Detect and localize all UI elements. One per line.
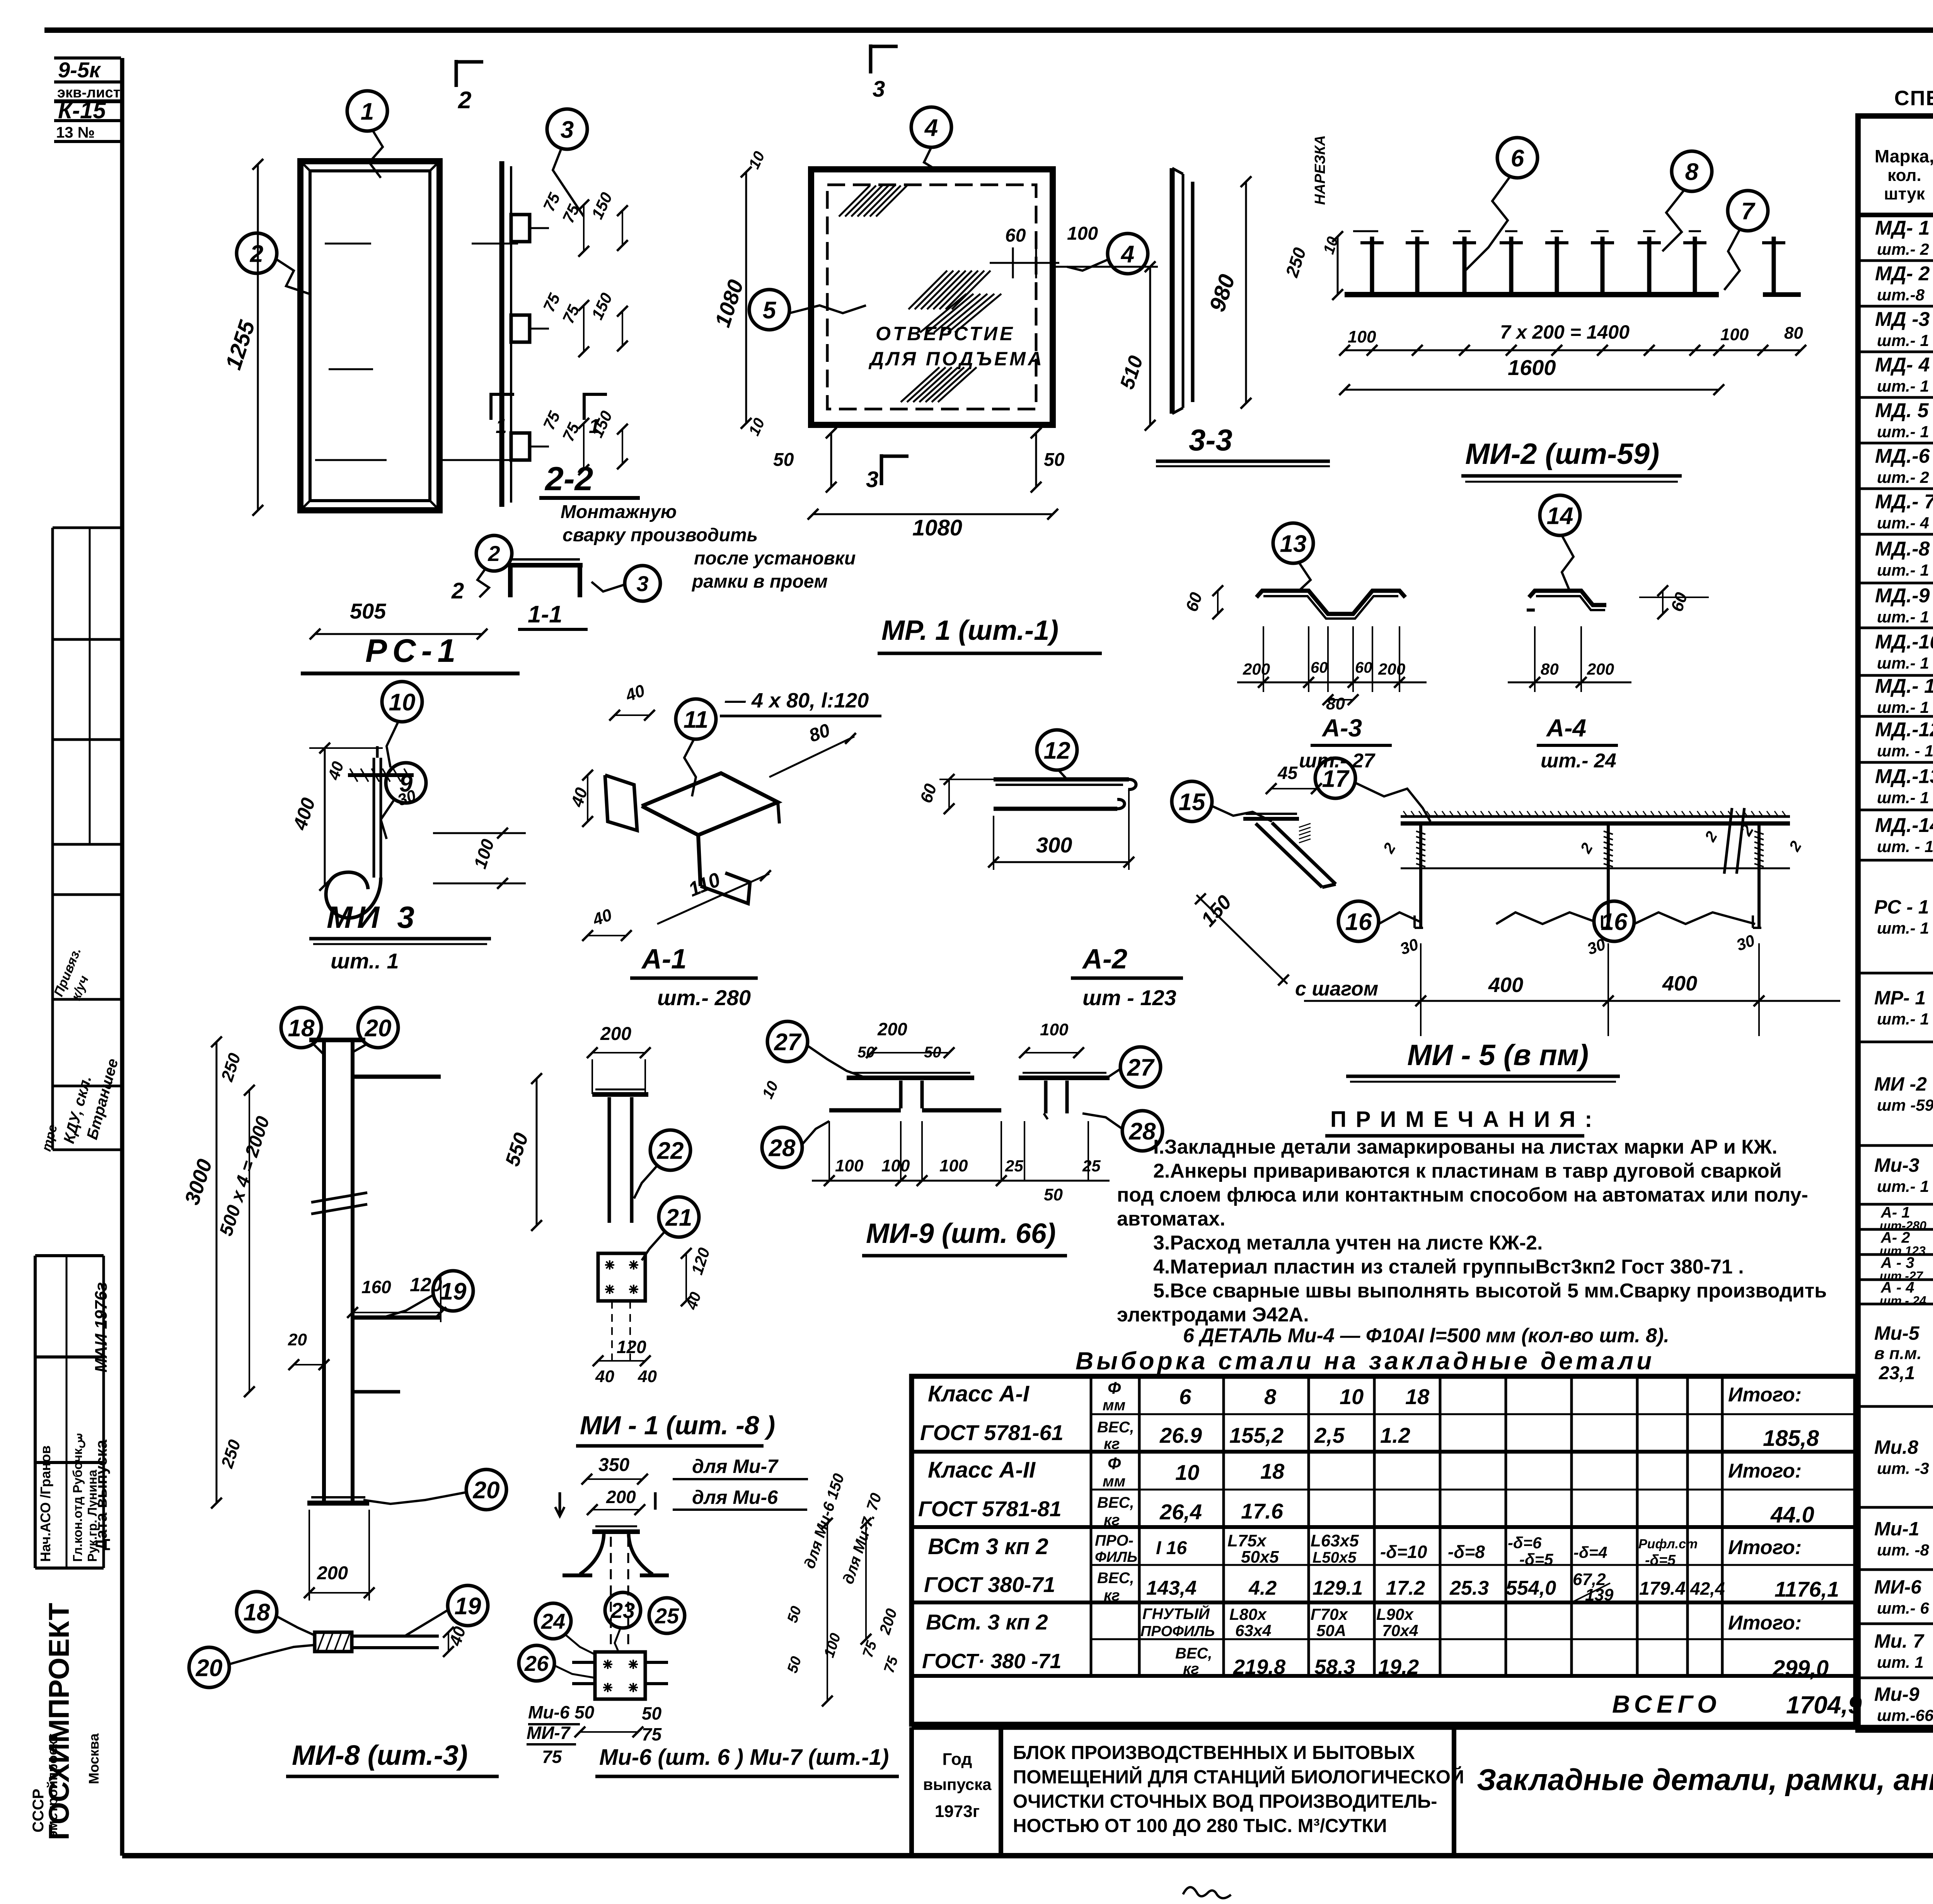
svg-text:Итого:: Итого:	[1728, 1612, 1802, 1634]
МИ-5 ref line	[1401, 868, 1790, 869]
svg-text:МД.- 11: МД.- 11	[1875, 675, 1933, 697]
svg-text:шт.- 280: шт.- 280	[657, 985, 751, 1010]
svg-text:3: 3	[561, 116, 574, 143]
detail А-3 profile	[1256, 591, 1405, 614]
svg-text:ФИЛЬ: ФИЛЬ	[1095, 1549, 1137, 1565]
spec row МД- 1	[1858, 259, 1933, 262]
svg-text:400: 400	[1488, 973, 1523, 997]
callout circle 16 left	[1338, 901, 1379, 941]
МИ-5 posts	[1419, 823, 1422, 928]
sheet bottom border	[122, 1853, 1933, 1858]
МИ-8 arms	[353, 1075, 441, 1079]
svg-text:18: 18	[1405, 1384, 1430, 1409]
А-2 dim 300	[994, 861, 1129, 863]
svg-text:50: 50	[1044, 450, 1065, 470]
detail 1-1 channel	[508, 563, 583, 568]
svg-text:ВСт. 3 кп 2: ВСт. 3 кп 2	[926, 1610, 1048, 1634]
svg-text:1: 1	[589, 415, 600, 438]
svg-text:штук: штук	[1884, 184, 1925, 203]
svg-text:12: 12	[1044, 737, 1070, 764]
svg-text:Нач.АСО /Гранов: Нач.АСО /Гранов	[38, 1445, 53, 1562]
svg-text:2: 2	[1577, 840, 1596, 856]
svg-text:шт. 1: шт. 1	[1877, 1653, 1924, 1671]
svg-text:Класс А-II: Класс А-II	[928, 1457, 1036, 1483]
detail МИ-1 tee anchor	[592, 1092, 648, 1097]
spec row МД.-14	[1858, 859, 1933, 862]
svg-text:МД.-12: МД.-12	[1875, 719, 1933, 741]
svg-text:50: 50	[642, 1703, 662, 1723]
МР-1 hatch cluster upper-left	[839, 186, 870, 216]
svg-text:Рифл.ст: Рифл.ст	[1638, 1537, 1698, 1551]
svg-text:ВЕС,: ВЕС,	[1175, 1645, 1212, 1662]
svg-text:27: 27	[1127, 1054, 1155, 1081]
svg-text:-δ=5: -δ=5	[1645, 1552, 1676, 1568]
svg-text:Итого:: Итого:	[1728, 1536, 1802, 1559]
svg-text:МД -3: МД -3	[1875, 308, 1930, 331]
svg-text:мм: мм	[1103, 1397, 1125, 1414]
svg-text:40: 40	[590, 905, 615, 929]
svg-text:— 4 x 80, l:120: — 4 x 80, l:120	[724, 689, 869, 712]
svg-text:ПРОФИЛЬ: ПРОФИЛЬ	[1140, 1623, 1215, 1640]
svg-text:17.6: 17.6	[1241, 1499, 1284, 1523]
svg-text:1080: 1080	[912, 515, 962, 540]
svg-text:Ми. 7: Ми. 7	[1874, 1630, 1924, 1652]
svg-text:шт. - 1: шт. - 1	[1877, 742, 1933, 760]
svg-text:шт.- 6: шт.- 6	[1877, 1599, 1929, 1617]
svg-text:200: 200	[1378, 660, 1405, 678]
svg-text:НАРЕЗКА: НАРЕЗКА	[1312, 135, 1328, 205]
svg-text:28: 28	[769, 1135, 796, 1161]
svg-text:1.2: 1.2	[1380, 1423, 1410, 1447]
svg-text:2: 2	[458, 87, 471, 114]
МР-1 hatch cluster centre	[909, 271, 947, 309]
3-3 dim 980	[1245, 182, 1247, 403]
МИ-3 dims	[324, 748, 326, 885]
spec row МД.-6	[1858, 488, 1933, 490]
callout circle 27 left	[767, 1021, 808, 1062]
svg-text:А-4: А-4	[1546, 714, 1586, 742]
detail МИ-3 anchor with hook	[373, 758, 375, 878]
callout circle 7	[1728, 191, 1768, 231]
svg-text:2: 2	[1786, 838, 1805, 854]
spec group А- 2	[1858, 1253, 1933, 1256]
callout circle 14	[1540, 495, 1580, 535]
svg-text:6 ДЕТАЛЬ Ми-4 — Ф10АI l=500: 6 ДЕТАЛЬ Ми-4 — Ф10АI l=500 мм (кол-во ш…	[1183, 1324, 1669, 1347]
svg-text:30: 30	[1398, 935, 1421, 958]
МР-1 hatch cluster lower	[901, 367, 939, 402]
section 3-3 plate	[1170, 168, 1175, 414]
svg-text:18: 18	[288, 1015, 315, 1041]
svg-text:200: 200	[606, 1487, 636, 1507]
svg-text:11: 11	[684, 706, 708, 733]
top-left stamp table	[54, 56, 121, 60]
svg-text:МД.-13: МД.-13	[1875, 765, 1933, 788]
svg-text:300: 300	[1036, 833, 1072, 857]
svg-text:8: 8	[1685, 159, 1699, 185]
svg-text:70х4: 70х4	[1382, 1621, 1418, 1640]
svg-text:ВЕС,: ВЕС,	[1097, 1494, 1134, 1511]
svg-text:Закладные детали, рамки, анке: Закладные детали, рамки, анкера.	[1477, 1763, 1933, 1797]
svg-text:250: 250	[218, 1051, 245, 1084]
svg-text:шт.- 1: шт.- 1	[1877, 561, 1929, 579]
svg-text:60: 60	[917, 781, 941, 805]
svg-text:ГОСХИМПРОЕКТ: ГОСХИМПРОЕКТ	[43, 1603, 75, 1840]
detail А-4 profile	[1529, 591, 1606, 605]
svg-text:3-3: 3-3	[1189, 423, 1232, 457]
svg-text:50: 50	[924, 1044, 941, 1061]
МИ-6/7 top plate	[592, 1529, 640, 1534]
svg-text:СПЕЦИФИКАЦИЯ СТАЛИ НА ОДНУ ШТУ: СПЕЦИФИКАЦИЯ СТАЛИ НА ОДНУ ШТУКУ КАЖДОЙ …	[1894, 86, 1933, 110]
svg-text:7: 7	[1741, 198, 1756, 225]
svg-text:мм: мм	[1103, 1473, 1125, 1490]
svg-text:для Ми-7. 70: для Ми-7. 70	[840, 1491, 885, 1586]
svg-text:с шагом: с шагом	[1295, 978, 1378, 1000]
section marker 1 marks	[489, 393, 493, 420]
spec row МД- 2	[1858, 305, 1933, 308]
МР-1 inner dashed opening	[827, 185, 1036, 409]
svg-text:шт.- 4: шт.- 4	[1877, 514, 1929, 532]
svg-text:50: 50	[784, 1655, 805, 1675]
svg-text:РС-1: РС-1	[365, 632, 461, 669]
svg-text:4: 4	[1120, 241, 1134, 268]
svg-text:80: 80	[1784, 324, 1803, 343]
callout circle 24	[535, 1603, 571, 1639]
svg-text:40: 40	[638, 1367, 657, 1386]
svg-text:в п.м.: в п.м.	[1874, 1344, 1922, 1363]
callout circle 23	[605, 1592, 641, 1628]
svg-text:60: 60	[1355, 659, 1372, 676]
svg-text:3.Расход металла учтен на лист: 3.Расход металла учтен на листе КЖ-2.	[1153, 1232, 1543, 1254]
callout circle 26	[519, 1645, 554, 1681]
svg-text:75: 75	[540, 190, 564, 214]
svg-text:25: 25	[655, 1604, 679, 1628]
spec row МД.-8	[1858, 582, 1933, 585]
МИ-1 dim 550	[536, 1079, 538, 1226]
МИ-1 base plate	[598, 1253, 645, 1301]
callout circle 16 right	[1594, 901, 1634, 941]
signature scribble bottom left	[1183, 1887, 1231, 1898]
detail А-2 channel anchor	[994, 777, 1129, 782]
middle-left stamp table	[53, 527, 122, 529]
spec group А - 3	[1858, 1278, 1933, 1281]
detail МР-1 outer plate	[811, 169, 1053, 425]
svg-text:40: 40	[324, 759, 347, 782]
МИ-6/7 lower plate	[595, 1652, 645, 1699]
svg-text:МД- 4: МД- 4	[1875, 354, 1930, 376]
svg-text:шт.- 2: шт.- 2	[1877, 468, 1929, 486]
svg-text:1080: 1080	[710, 277, 748, 330]
svg-text:МИ-6: МИ-6	[1874, 1576, 1922, 1598]
vyborka table horizontals	[1091, 1413, 1856, 1415]
svg-text:400: 400	[1662, 972, 1697, 995]
svg-text:шт.. 1: шт.. 1	[331, 949, 399, 973]
callout circle 20 lower	[466, 1469, 506, 1510]
А-4 dim 60 right	[1662, 591, 1664, 614]
МИ-6/7 right dim stack	[827, 1523, 828, 1701]
callout circle 15	[1172, 781, 1212, 822]
svg-text:120: 120	[617, 1337, 646, 1357]
svg-text:ВЕС,: ВЕС,	[1097, 1419, 1134, 1436]
svg-text:2: 2	[488, 541, 500, 566]
spec row МД- 4	[1858, 396, 1933, 399]
svg-text:44.0: 44.0	[1770, 1502, 1814, 1527]
svg-text:200: 200	[877, 1019, 907, 1039]
svg-text:2,5: 2,5	[1314, 1423, 1345, 1447]
svg-text:Ми-3: Ми-3	[1874, 1154, 1919, 1176]
А-2 dim 60	[948, 779, 950, 809]
vyborka table outer border	[912, 1376, 1856, 1724]
svg-text:5: 5	[763, 297, 777, 324]
spec table outer border	[1858, 116, 1933, 1730]
svg-text:МИ-2 (шт-59): МИ-2 (шт-59)	[1465, 438, 1659, 470]
svg-text:МР- 1: МР- 1	[1874, 987, 1926, 1009]
svg-text:20: 20	[365, 1015, 392, 1041]
callout circle 17	[1315, 758, 1355, 798]
МИ-3 bottom hook	[326, 872, 381, 918]
callout circle 2 at 1-1	[476, 535, 512, 571]
svg-text:100: 100	[1348, 327, 1376, 346]
svg-text:10: 10	[1175, 1460, 1199, 1485]
svg-text:шт.- 24: шт.- 24	[1541, 750, 1616, 772]
svg-text:980: 980	[1205, 271, 1240, 315]
svg-text:МИ 3: МИ 3	[327, 900, 419, 934]
svg-text:БЛОК ПРОИЗВОДСТВЕННЫХ И БЫТ: БЛОК ПРОИЗВОДСТВЕННЫХ И БЫТОВЫХ	[1013, 1742, 1415, 1763]
svg-text:27: 27	[774, 1029, 802, 1055]
svg-text:100: 100	[939, 1156, 968, 1175]
title block verticals	[909, 1727, 914, 1856]
spec row МД.-9	[1858, 627, 1933, 629]
callout circle 10	[382, 682, 422, 722]
svg-text:554,0: 554,0	[1506, 1577, 1556, 1599]
svg-text:50: 50	[857, 1044, 875, 1061]
callout circle 4 top	[911, 107, 951, 147]
svg-text:25: 25	[1005, 1157, 1023, 1175]
svg-text:-δ=5: -δ=5	[1519, 1550, 1553, 1568]
svg-text:шт - 123: шт - 123	[1082, 985, 1176, 1010]
svg-text:L90х: L90х	[1376, 1605, 1414, 1623]
svg-text:26.9: 26.9	[1159, 1423, 1202, 1447]
svg-text:Ми-5: Ми-5	[1874, 1323, 1920, 1344]
svg-text:3: 3	[866, 467, 878, 492]
detail РС-1 outer frame	[300, 161, 440, 510]
svg-text:500 х 4 = 2000: 500 х 4 = 2000	[216, 1114, 274, 1239]
callout circle 19 mid	[433, 1271, 473, 1311]
svg-text:РС - 1: РС - 1	[1874, 896, 1929, 918]
callout circle 27 right	[1120, 1047, 1161, 1087]
svg-text:после установки: после установки	[694, 548, 856, 569]
svg-text:1: 1	[496, 415, 507, 438]
svg-text:50: 50	[1044, 1185, 1063, 1204]
svg-text:А-1: А-1	[641, 944, 687, 975]
svg-text:кол.: кол.	[1887, 166, 1921, 185]
svg-text:400: 400	[289, 795, 319, 833]
svg-text:28: 28	[1129, 1118, 1156, 1145]
svg-text:150: 150	[588, 290, 616, 322]
svg-text:Москва: Москва	[86, 1733, 102, 1784]
spec group Ми-5	[1858, 1405, 1933, 1408]
svg-text:21: 21	[665, 1204, 692, 1231]
detail РС-1 inner frame	[310, 171, 430, 501]
callout circle 6	[1497, 138, 1538, 178]
svg-text:5.Все сварные швы выполнять вы: 5.Все сварные швы выполнять высотой 5 мм…	[1153, 1280, 1827, 1302]
svg-text:10: 10	[1340, 1384, 1364, 1409]
svg-text:10: 10	[759, 1079, 782, 1101]
svg-text:МАИ 1976г: МАИ 1976г	[92, 1282, 111, 1372]
svg-text:автоматах.: автоматах.	[1117, 1208, 1226, 1230]
svg-text:шт -59: шт -59	[1877, 1096, 1933, 1114]
svg-text:50: 50	[773, 450, 794, 470]
svg-text:ОЧИСТКИ СТОЧНЫХ ВОД ПРОИЗВО: ОЧИСТКИ СТОЧНЫХ ВОД ПРОИЗВОДИТЕЛЬ-	[1013, 1791, 1437, 1812]
svg-text:сварку производить: сварку производить	[563, 525, 758, 545]
spec group Ми. 7	[1858, 1677, 1933, 1679]
svg-text:179.4: 179.4	[1639, 1578, 1686, 1599]
svg-text:150: 150	[588, 189, 616, 222]
callout circle 3 at 1-1	[625, 566, 660, 601]
svg-text:L63x5: L63x5	[1311, 1531, 1359, 1550]
lower-left stamp table	[35, 1254, 104, 1257]
svg-text:8: 8	[1264, 1384, 1277, 1409]
detail МИ-9 left tee	[847, 1076, 974, 1080]
svg-text:60: 60	[1182, 590, 1206, 614]
svg-text:Ф: Ф	[1108, 1454, 1121, 1473]
РС-1 centre tick marks	[325, 243, 371, 245]
МИ-2 teeth	[1370, 237, 1374, 293]
svg-text:26,4: 26,4	[1159, 1500, 1202, 1524]
svg-text:75: 75	[559, 302, 583, 326]
spec group А - 4	[1858, 1303, 1933, 1306]
svg-text:200: 200	[600, 1024, 631, 1044]
svg-text:75: 75	[540, 408, 564, 433]
svg-text:МД.-8: МД.-8	[1875, 538, 1930, 560]
МИ-5 break marks	[1724, 808, 1732, 874]
spec group МР- 1	[1858, 1041, 1933, 1043]
svg-text:Гл.кон.отд Рубочкس: Гл.кон.отд Рубочкس	[70, 1433, 85, 1562]
svg-text:505: 505	[350, 599, 386, 623]
svg-text:75: 75	[642, 1724, 662, 1744]
svg-text:ДЛЯ ПОДЪЕМА: ДЛЯ ПОДЪЕМА	[868, 348, 1044, 370]
svg-text:под слоем флюса или контактным: под слоем флюса или контактным способом …	[1117, 1184, 1808, 1206]
svg-text:А-2: А-2	[1082, 944, 1127, 975]
РС-1 corner miters	[300, 161, 310, 171]
svg-text:75: 75	[559, 201, 583, 226]
detail А-1 bent plate 3D	[642, 773, 778, 835]
svg-text:Бтраншее: Бтраншее	[84, 1057, 121, 1141]
title block top line	[912, 1725, 1933, 1730]
svg-text:Монтажную: Монтажную	[561, 502, 677, 522]
spec row МД. 5	[1858, 442, 1933, 445]
svg-text:100: 100	[470, 837, 498, 871]
МИ-3 top tee	[348, 773, 414, 777]
svg-text:шт.- 2: шт.- 2	[1877, 240, 1929, 258]
callout circle 20 top	[358, 1007, 398, 1048]
svg-text:19: 19	[440, 1278, 467, 1305]
svg-text:4: 4	[924, 114, 938, 141]
svg-text:I.Закладные детали замаркирова: I.Закладные детали замаркированы на лист…	[1153, 1136, 1777, 1158]
svg-text:шт.- 24: шт.- 24	[1880, 1294, 1926, 1308]
МИ-8 dim 200 bottom	[309, 1592, 369, 1594]
svg-text:24: 24	[541, 1609, 565, 1633]
svg-text:Выборка стали на закладные: Выборка стали на закладные детали	[1076, 1347, 1655, 1375]
detail МИ-8 column	[322, 1042, 326, 1503]
svg-text:60: 60	[1311, 659, 1328, 676]
svg-text:МД- 1: МД- 1	[1875, 217, 1930, 239]
detail МИ-9 right tee	[1019, 1076, 1110, 1080]
svg-text:шт.- 1: шт.- 1	[1877, 331, 1929, 349]
svg-text:50x5: 50x5	[1241, 1548, 1279, 1566]
detail МИ-5 left angle	[1243, 817, 1299, 821]
section 2-2 bolts	[511, 215, 530, 242]
callout circle 8	[1672, 151, 1712, 191]
svg-text:50А: 50А	[1316, 1621, 1346, 1640]
svg-text:ПОМЕЩЕНИЙ ДЛЯ СТАНЦИЙ БИОЛОГИЧ: ПОМЕЩЕНИЙ ДЛЯ СТАНЦИЙ БИОЛОГИЧЕСКОЙ	[1013, 1766, 1464, 1788]
МИ-8 anchor sub-detail	[315, 1632, 352, 1652]
svg-text:МР. 1 (шт.-1): МР. 1 (шт.-1)	[881, 615, 1059, 646]
svg-text:3: 3	[636, 571, 648, 596]
svg-text:кг: кг	[1104, 1587, 1120, 1604]
spec row МД.- 7	[1858, 533, 1933, 536]
svg-text:200: 200	[876, 1607, 900, 1637]
svg-text:шт. -8: шт. -8	[1877, 1541, 1929, 1559]
svg-text:Ми-6 (шт. 6 ) Ми-7 (шт.-1): Ми-6 (шт. 6 ) Ми-7 (шт.-1)	[599, 1745, 889, 1770]
svg-text:2: 2	[1380, 840, 1399, 856]
callout circle 22	[650, 1130, 690, 1170]
svg-text:45: 45	[1277, 763, 1298, 783]
spec group Ми-3	[1858, 1203, 1933, 1206]
МИ-6/7 down arrow	[559, 1492, 561, 1515]
svg-text:МИ - 1 (шт. -8 ): МИ - 1 (шт. -8 )	[580, 1411, 775, 1440]
svg-text:17.2: 17.2	[1386, 1577, 1425, 1599]
svg-text:42,4: 42,4	[1690, 1578, 1725, 1599]
А-3 dims below	[1263, 626, 1264, 692]
svg-text:ПРО-: ПРО-	[1095, 1532, 1134, 1549]
svg-text:60: 60	[1667, 590, 1691, 614]
svg-text:А-3: А-3	[1321, 714, 1362, 742]
3-3 bar right	[1191, 182, 1195, 402]
svg-text:для Ми-7: для Ми-7	[692, 1456, 779, 1477]
svg-text:6: 6	[1511, 145, 1524, 172]
МР-1 left dim 1080	[745, 172, 747, 423]
svg-text:Итого:: Итого:	[1728, 1460, 1802, 1482]
svg-text:Итого:: Итого:	[1728, 1384, 1802, 1406]
svg-text:МИ - 5 (в пм): МИ - 5 (в пм)	[1407, 1039, 1589, 1072]
svg-text:Год: Год	[943, 1750, 972, 1769]
svg-text:75: 75	[542, 1747, 563, 1767]
svg-text:ВСт 3 кп 2: ВСт 3 кп 2	[928, 1534, 1048, 1559]
svg-text:100: 100	[1720, 325, 1749, 344]
svg-text:13 №: 13 №	[56, 124, 95, 141]
svg-text:13: 13	[1280, 530, 1307, 557]
svg-text:129.1: 129.1	[1313, 1577, 1363, 1599]
svg-text:ВСЕГО: ВСЕГО	[1612, 1690, 1721, 1718]
svg-text:НОСТЬЮ ОТ 100 ДО 280 ТЫС. М³: НОСТЬЮ ОТ 100 ДО 280 ТЫС. М³/СУТКИ	[1013, 1815, 1387, 1836]
callout circle 4 right	[1108, 234, 1148, 274]
svg-text:Ми-9: Ми-9	[1874, 1684, 1919, 1705]
svg-text:60: 60	[1005, 225, 1026, 246]
svg-text:120: 120	[688, 1246, 713, 1277]
svg-text:МД.-6: МД.-6	[1875, 445, 1930, 467]
svg-text:шт. - 1: шт. - 1	[1877, 837, 1933, 856]
svg-text:100: 100	[1067, 223, 1098, 244]
svg-text:58.3: 58.3	[1314, 1655, 1355, 1679]
МИ-2 dim 1600	[1345, 389, 1719, 391]
МИ-5 bottom dim row	[1304, 1000, 1840, 1002]
svg-text:МИ-7: МИ-7	[527, 1723, 571, 1743]
МИ-9 left dims	[871, 1052, 949, 1053]
svg-text:200: 200	[1243, 660, 1270, 678]
svg-text:МИ-9 (шт. 66): МИ-9 (шт. 66)	[866, 1218, 1056, 1249]
svg-text:18: 18	[244, 1599, 270, 1626]
svg-text:шт.- 1: шт.- 1	[1877, 789, 1929, 807]
